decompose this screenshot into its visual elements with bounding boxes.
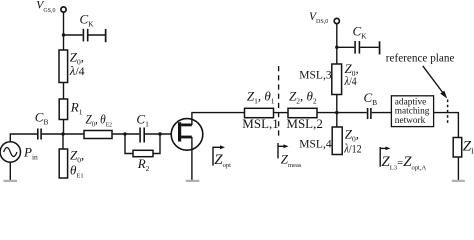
wire node C to CB right bbox=[337, 112, 367, 114]
ground (cut) below source bbox=[4, 180, 18, 182]
svg-text:Z1, θ1: Z1, θ1 bbox=[247, 88, 275, 105]
reference plane dotted (right) bbox=[447, 100, 449, 124]
node A bbox=[123, 132, 126, 135]
wire C1 to node B bbox=[145, 133, 172, 135]
transistor top bar bbox=[181, 124, 192, 127]
resistor R2 bbox=[133, 150, 153, 156]
short bar (right CK) bbox=[379, 41, 381, 54]
capacitor CK (left) bbox=[83, 29, 89, 42]
stub Z0 thetaE1 wire bbox=[62, 134, 64, 149]
wire CK to end bar right bbox=[360, 46, 379, 48]
wire source up bbox=[10, 134, 37, 142]
transmission line MSL,2 bbox=[288, 108, 317, 117]
adaptive matching network box bbox=[391, 96, 433, 127]
wire to node A bbox=[112, 133, 139, 135]
svg-text:MSL,4: MSL,4 bbox=[299, 139, 332, 151]
wire R2 branch left bbox=[125, 134, 133, 154]
terminal V_GS,0 bbox=[61, 7, 66, 12]
marker Zopt arrow bbox=[212, 147, 214, 166]
resistor R1 bbox=[59, 99, 67, 120]
node gate-bias/CK junction bbox=[62, 33, 65, 36]
wire node C down bbox=[336, 113, 338, 127]
wire CB to junction bbox=[42, 133, 84, 135]
marker Zmeas arrow bbox=[277, 143, 279, 158]
wire MSL2 to node C bbox=[317, 112, 337, 114]
wire network to corner bbox=[434, 113, 459, 138]
load ZL bbox=[453, 138, 462, 158]
source Pin bbox=[0, 142, 20, 162]
transmission line MSL,4 Z0 lambda/12 bbox=[332, 127, 342, 155]
wire bbox=[63, 120, 65, 135]
svg-text:Z2, θ2: Z2, θ2 bbox=[289, 88, 317, 105]
transistor gate bar bbox=[178, 122, 181, 141]
wire CK to end bar bbox=[89, 34, 106, 36]
wire drain bbox=[192, 113, 245, 125]
wire to CK bbox=[64, 34, 83, 36]
capacitor CB (input) bbox=[37, 129, 42, 140]
wire drain bias vertical bbox=[336, 24, 338, 64]
terminal V_DS,0 bbox=[334, 18, 339, 23]
capacitor CK (right) bbox=[354, 41, 360, 54]
arrow from reference plane label bbox=[423, 66, 444, 94]
ground (cut) below ZL bbox=[452, 180, 465, 182]
short bar (left CK) bbox=[105, 29, 107, 42]
svg-text:MSL,1: MSL,1 bbox=[242, 116, 278, 131]
node C bbox=[335, 111, 338, 114]
wire gate bias vertical top bbox=[63, 12, 65, 50]
svg-text:MSL,3: MSL,3 bbox=[299, 70, 332, 82]
transistor Q1 circle bbox=[171, 119, 203, 151]
wire bbox=[63, 83, 65, 100]
svg-text:λ/4: λ/4 bbox=[344, 73, 357, 88]
wire ZL down bbox=[457, 157, 459, 182]
wire MSL1-MSL2 bbox=[274, 112, 289, 114]
wire source down to ground bbox=[191, 137, 193, 182]
wire MSL3 to node C bbox=[336, 95, 338, 113]
ground (cut) below transistor bbox=[186, 180, 200, 182]
wire to CK right bbox=[337, 46, 355, 48]
svg-text:λ/12: λ/12 bbox=[343, 140, 361, 155]
transmission line MSL,3 Z0 lambda/4 bbox=[332, 64, 342, 95]
svg-text:network: network bbox=[395, 116, 426, 126]
wire R2 branch right bbox=[153, 134, 160, 154]
svg-text:reference plane: reference plane bbox=[386, 53, 455, 65]
marker ZL3 arrow bbox=[379, 147, 381, 167]
node drain-bias/CK junction bbox=[335, 46, 338, 49]
wire source down bbox=[9, 162, 11, 182]
svg-text:MSL,2: MSL,2 bbox=[286, 116, 322, 131]
node B bbox=[158, 132, 161, 135]
svg-text:λ/4: λ/4 bbox=[69, 63, 85, 78]
wire CB to network bbox=[372, 112, 392, 114]
transmission line Z0 lambda/4 (gate) bbox=[59, 50, 68, 83]
capacitor CB (output) bbox=[367, 108, 372, 119]
capacitor C1 bbox=[139, 128, 145, 143]
transmission line Z0 thetaE2 bbox=[84, 131, 112, 139]
transmission line Z0 thetaE1 bbox=[59, 149, 67, 178]
node input junction bbox=[61, 132, 64, 135]
transistor bottom bar bbox=[181, 136, 192, 139]
transmission line MSL,1 bbox=[245, 108, 274, 117]
reference plane dashed (meas) bbox=[278, 66, 280, 137]
